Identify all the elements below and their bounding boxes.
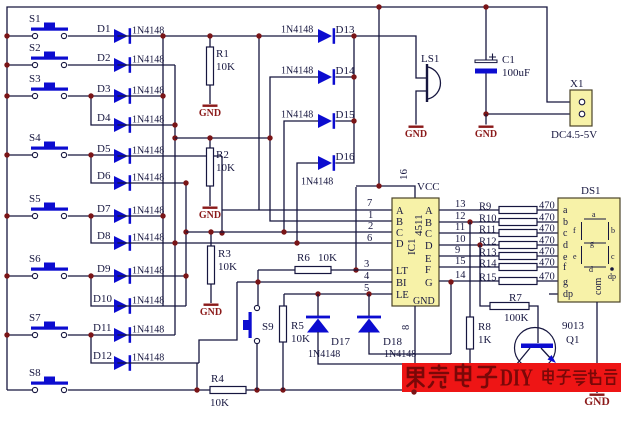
svg-text:10K: 10K <box>318 252 337 264</box>
wire: D3 out <box>117 95 163 97</box>
svg-text:g: g <box>590 239 594 248</box>
node: bus junction S5 <box>4 213 9 218</box>
svg-text:470: 470 <box>539 247 555 258</box>
svg-text:100uF: 100uF <box>502 67 530 79</box>
resistor R15 <box>499 278 537 285</box>
svg-text:12: 12 <box>455 211 466 222</box>
wire: S9 to bus <box>256 344 258 390</box>
diode D16 <box>318 155 335 171</box>
wire: R12 to DS1 <box>537 244 558 246</box>
DS1 segment drawing <box>582 219 614 270</box>
svg-text:GND: GND <box>200 307 222 318</box>
node R3 top <box>208 229 213 234</box>
switch S7 <box>29 312 68 338</box>
display DS1 <box>558 198 620 302</box>
node bus-D12 <box>194 387 199 392</box>
wire: D9 out <box>117 275 186 277</box>
svg-text:e: e <box>573 252 577 261</box>
node S9-pin4 <box>255 279 260 284</box>
svg-text:10K: 10K <box>216 162 235 174</box>
svg-text:D11: D11 <box>93 322 112 334</box>
svg-text:c: c <box>563 228 568 239</box>
resistor R12 <box>499 242 537 249</box>
wire: D16 anode to D net <box>297 163 318 243</box>
wire: D5 vertical <box>221 156 223 233</box>
wire: D18 cathode lead <box>368 294 370 316</box>
wire: D14 anode / B vertical to IC pin1 <box>270 77 392 221</box>
resistor R3 <box>208 246 215 284</box>
svg-text:f: f <box>573 226 576 235</box>
diode D4 <box>114 117 131 133</box>
svg-text:S1: S1 <box>29 13 41 25</box>
watermark text <box>408 365 497 388</box>
wire: R10 to DS1 <box>537 221 558 223</box>
svg-text:1N4148: 1N4148 <box>308 349 340 360</box>
svg-text:DIY: DIY <box>500 366 533 392</box>
svg-text:4: 4 <box>364 271 370 282</box>
wire: G hook vertical <box>450 282 452 354</box>
connector X1 <box>551 78 597 141</box>
svg-text:14: 14 <box>455 270 466 281</box>
wire: R8 down <box>469 349 471 364</box>
svg-text:dp: dp <box>563 289 573 300</box>
node V1-D3 <box>160 93 165 98</box>
svg-text:1N4148: 1N4148 <box>281 110 313 121</box>
svg-text:a: a <box>563 205 568 216</box>
wire: R13 to DS1 <box>537 255 558 257</box>
svg-text:470: 470 <box>539 236 555 247</box>
svg-text:D12: D12 <box>93 350 112 362</box>
svg-text:GND: GND <box>199 210 221 221</box>
svg-text:DC4.5-5V: DC4.5-5V <box>551 129 597 141</box>
wire: D8 row to IC pin6 <box>117 242 392 244</box>
svg-text:D17: D17 <box>331 336 350 348</box>
svg-text:R4: R4 <box>211 373 224 385</box>
svg-text:Q1: Q1 <box>566 334 579 346</box>
node D5-Cwire <box>219 230 224 235</box>
svg-text:GND: GND <box>199 108 221 119</box>
wire: vertical V2 <box>174 65 176 335</box>
wire: IC pin5 LE <box>284 293 392 295</box>
svg-text:B: B <box>425 218 432 229</box>
node V2-Bwire <box>172 135 177 140</box>
wire: C1 GND stub <box>485 114 487 125</box>
wire: bottom bus <box>68 389 416 391</box>
svg-text:VCC: VCC <box>417 181 440 193</box>
node bus-R5 <box>280 387 285 392</box>
wire: R1 to GND <box>209 85 211 104</box>
switch S8 <box>29 367 68 393</box>
svg-text:R8: R8 <box>478 321 491 333</box>
node D15-C <box>281 229 286 234</box>
svg-text:470: 470 <box>539 272 555 283</box>
wire: D17 cathode lead <box>317 294 319 316</box>
svg-text:1N4148: 1N4148 <box>132 296 164 307</box>
wire: bus to S2 <box>7 64 32 66</box>
svg-text:S8: S8 <box>29 367 41 379</box>
node: bus junction below banner <box>411 389 416 394</box>
diode D11 <box>114 327 131 343</box>
svg-text:10: 10 <box>455 234 466 245</box>
svg-text:8: 8 <box>401 325 412 330</box>
wire: S4 to D5 <box>68 154 114 156</box>
svg-text:S5: S5 <box>29 193 41 205</box>
wire: bus to S6 <box>7 275 32 277</box>
wire: VCC to IC pin16 <box>356 186 415 198</box>
svg-text:R6: R6 <box>297 252 310 264</box>
wire: IC pin12 to R10 <box>439 221 499 223</box>
diode D12 <box>114 355 131 371</box>
node pin14 <box>448 279 453 284</box>
node: bus junction S3 <box>4 93 9 98</box>
diode D10 <box>114 298 131 314</box>
node D13 cathode <box>351 33 356 38</box>
svg-text:b: b <box>611 226 615 235</box>
node: S3 branch <box>88 93 93 98</box>
wire: D15 anode to C net <box>284 121 318 232</box>
resistor R4 <box>210 387 246 394</box>
svg-text:C: C <box>396 228 403 239</box>
svg-text:7: 7 <box>367 198 372 209</box>
svg-text:S2: S2 <box>29 42 41 54</box>
svg-text:6: 6 <box>367 233 372 244</box>
diode D17 <box>306 316 330 333</box>
svg-text:D4: D4 <box>97 112 111 124</box>
svg-text:1N4148: 1N4148 <box>132 55 164 66</box>
svg-text:16: 16 <box>398 169 410 181</box>
wire: IC pin14 to R15 <box>439 280 499 282</box>
svg-text:b: b <box>563 217 568 228</box>
svg-text:R13: R13 <box>479 248 497 259</box>
wire: DS1 com to GND <box>596 302 598 393</box>
node: bus junction S6 <box>4 273 9 278</box>
node: S7 branch <box>88 332 93 337</box>
svg-text:R9: R9 <box>479 202 491 213</box>
node D17 top <box>315 291 320 296</box>
diode D5 <box>114 148 131 164</box>
node V1-D1 <box>160 33 165 38</box>
IC U1 4511 <box>392 198 439 306</box>
svg-text:LS1: LS1 <box>421 53 439 65</box>
svg-text:D10: D10 <box>93 293 112 305</box>
svg-text:1N4148: 1N4148 <box>132 233 164 244</box>
wire: R5 to bus <box>282 342 284 390</box>
svg-text:D8: D8 <box>97 230 111 242</box>
wire: VCC drop <box>378 7 380 186</box>
wire: R2 to GND <box>209 186 211 206</box>
wire: R6 left <box>258 269 295 271</box>
wire: D7 out <box>117 215 163 217</box>
wire: IC pin8 GND <box>414 306 416 391</box>
svg-text:15: 15 <box>455 256 466 267</box>
wire: B net horizontal <box>175 137 270 139</box>
node C1 bottom <box>483 111 488 116</box>
svg-text:D: D <box>396 239 404 250</box>
wire: vertical V3 <box>185 183 187 306</box>
wire: IC pin11 to R11 <box>439 232 499 234</box>
svg-text:1N4148: 1N4148 <box>132 206 164 217</box>
node D14 cathode <box>351 74 356 79</box>
svg-text:GND: GND <box>584 396 610 408</box>
resistor R5 <box>280 306 287 342</box>
node bus-S9 <box>254 387 259 392</box>
svg-text:2: 2 <box>368 221 373 232</box>
svg-text:d: d <box>563 240 568 251</box>
wire: vertical V1 <box>162 36 164 306</box>
svg-text:GND: GND <box>413 296 435 307</box>
wire: top bus to C1 <box>485 7 487 60</box>
switch S4 <box>29 132 68 158</box>
svg-text:R11: R11 <box>479 225 496 236</box>
node D15 cathode <box>351 118 356 123</box>
node D16-D <box>294 240 299 245</box>
svg-text:1N4148: 1N4148 <box>132 26 164 37</box>
svg-text:1N4148: 1N4148 <box>281 25 313 36</box>
svg-text:R1: R1 <box>216 48 229 60</box>
resistor R13 <box>499 253 537 260</box>
wire: IC pin13 to R9 <box>439 209 499 211</box>
node C1 top <box>483 4 488 9</box>
speaker LS1 <box>421 53 440 102</box>
diode D14 <box>318 69 335 85</box>
node R1 top <box>207 33 212 38</box>
node: S5 branch <box>88 213 93 218</box>
node A net <box>256 33 261 38</box>
svg-text:470: 470 <box>539 224 555 235</box>
wire: S3 branch to D4 <box>91 96 114 125</box>
diode D9 <box>114 268 131 284</box>
wire: pin10 to R7 <box>480 245 490 306</box>
wire: D13 cathode to LS1 <box>335 36 426 78</box>
resistor R6 <box>295 267 331 274</box>
svg-text:D18: D18 <box>383 336 402 348</box>
wire: IC pin15 to R14 <box>439 266 499 268</box>
node V1-D7 <box>160 213 165 218</box>
svg-text:D3: D3 <box>97 83 111 95</box>
switch S5 <box>29 193 68 219</box>
watermark small text <box>543 369 616 385</box>
svg-text:R3: R3 <box>218 248 231 260</box>
wire: D12 to bottom bus <box>196 363 198 390</box>
node LT <box>353 267 358 272</box>
wire: S3 to D3 <box>68 95 114 97</box>
node: bus junction S7 <box>4 332 9 337</box>
wire: S7 to D11 <box>68 334 114 336</box>
wire: D14-D16 cathode chain <box>335 36 354 163</box>
watermark banner <box>402 363 621 392</box>
wire: D18 anode <box>369 332 451 354</box>
node: bus junction S1 <box>4 33 9 38</box>
svg-text:S6: S6 <box>29 253 41 265</box>
svg-text:D: D <box>425 241 433 252</box>
switch S3 <box>29 73 68 99</box>
diode D6 <box>114 175 131 191</box>
svg-text:100K: 100K <box>504 312 529 324</box>
wire: A net vertical <box>258 36 260 210</box>
svg-text:B: B <box>396 217 403 228</box>
node V3-D6 <box>183 180 188 185</box>
node D18 top <box>366 291 371 296</box>
ground C1 <box>475 126 497 141</box>
diode D8 <box>114 235 131 251</box>
wire: D1 row to D13 anode <box>117 35 318 37</box>
svg-text:a: a <box>592 210 596 219</box>
resistor R8 <box>467 317 474 349</box>
svg-text:DS1: DS1 <box>581 185 601 197</box>
wire: pin12 to R8 <box>469 222 471 317</box>
wire: bus to S8 <box>7 389 32 391</box>
diode D13 <box>318 28 335 44</box>
diode D15 <box>318 113 335 129</box>
diode D7 <box>114 208 131 224</box>
resistor R1 <box>207 47 214 85</box>
wire: C net to IC pin2 <box>186 231 392 233</box>
node VCC junction <box>376 183 381 188</box>
svg-text:D5: D5 <box>97 143 111 155</box>
resistor R7 <box>490 303 529 310</box>
wire: D12 out <box>117 362 199 364</box>
svg-text:g: g <box>563 277 568 288</box>
svg-text:470: 470 <box>539 201 555 212</box>
node: S4 branch <box>88 152 93 157</box>
svg-text:com: com <box>593 278 604 295</box>
wire: R7 to Q1 <box>529 306 538 343</box>
svg-text:S4: S4 <box>29 132 41 144</box>
ground DS1 <box>584 394 610 409</box>
resistor R9 <box>499 207 537 214</box>
ground LS1 <box>405 126 427 141</box>
node V3-D9 <box>183 273 188 278</box>
wire: IC pin9 to R13 <box>439 255 499 257</box>
svg-text:3: 3 <box>364 259 369 270</box>
wire: D15 cathode <box>335 120 354 122</box>
wire: LT vertical <box>355 187 357 270</box>
node R2 top <box>207 135 212 140</box>
node V3-Cwire <box>183 229 188 234</box>
wire: R6 to S9 <box>257 270 259 305</box>
svg-text:R2: R2 <box>216 149 229 161</box>
svg-text:R10: R10 <box>479 214 497 225</box>
wire: IC pin10 to R12 <box>439 244 499 246</box>
wire: R14 to DS1 <box>537 266 558 268</box>
node B vertical <box>267 135 272 140</box>
wire: LS1 to GND <box>416 91 426 125</box>
wire: D6 out <box>117 182 186 184</box>
svg-text:C1: C1 <box>502 54 515 66</box>
svg-text:1N4148: 1N4148 <box>132 86 164 97</box>
ground R3 <box>200 304 222 319</box>
wire: D17 anode <box>318 332 402 364</box>
wire: S6 to D9 <box>68 275 114 277</box>
svg-text:1N4148: 1N4148 <box>301 177 333 188</box>
svg-text:10K: 10K <box>210 397 229 409</box>
node pin10 <box>477 242 482 247</box>
svg-text:D16: D16 <box>336 151 355 163</box>
svg-text:4511: 4511 <box>413 214 425 236</box>
wire: D12 to pin4 staircase <box>199 282 237 363</box>
DS1 segment letters <box>573 210 616 281</box>
svg-text:1N4148: 1N4148 <box>132 266 164 277</box>
wire: S7 branch to D12 <box>91 335 114 363</box>
svg-text:9: 9 <box>455 245 460 256</box>
svg-text:R7: R7 <box>509 292 522 304</box>
transistor Q1 <box>515 328 557 369</box>
svg-text:13: 13 <box>455 199 466 210</box>
svg-text:d: d <box>589 265 593 274</box>
wire: S5 to D7 <box>68 215 114 217</box>
svg-text:9013: 9013 <box>562 320 585 332</box>
svg-text:A: A <box>425 206 433 217</box>
diode D1 <box>114 28 131 44</box>
wire: LE to R5 <box>283 294 285 306</box>
diode D18 <box>357 316 381 333</box>
wire: IC pin7 A <box>222 209 392 211</box>
svg-text:10K: 10K <box>216 61 235 73</box>
wire: D10 out <box>117 305 186 307</box>
wire: D11 out <box>117 334 175 336</box>
node pin12 <box>467 219 472 224</box>
svg-text:R5: R5 <box>291 320 304 332</box>
resistor R2 <box>207 148 214 186</box>
svg-text:S3: S3 <box>29 73 41 85</box>
wire: C to R3 <box>210 232 212 246</box>
wire: C1 to X1 pin2 <box>486 74 578 115</box>
svg-text:c: c <box>611 252 615 261</box>
ground R1 <box>199 105 221 120</box>
svg-text:1: 1 <box>368 210 373 221</box>
wire: S5 branch to D8 <box>91 216 114 243</box>
svg-text:F: F <box>425 265 431 276</box>
svg-text:D9: D9 <box>97 263 111 275</box>
svg-text:dp: dp <box>608 272 616 281</box>
wire: D5 out <box>117 155 222 157</box>
wire: S2 to D2 <box>68 64 114 66</box>
diode D3 <box>114 88 131 104</box>
svg-text:IC1: IC1 <box>406 239 418 256</box>
wire: IC pin4 BI <box>237 281 392 283</box>
svg-text:GND: GND <box>405 129 427 140</box>
svg-text:1N4148: 1N4148 <box>132 146 164 157</box>
wire: S6 branch to D10 <box>91 276 114 306</box>
svg-text:R15: R15 <box>479 273 497 284</box>
svg-text:A: A <box>396 206 404 217</box>
svg-text:E: E <box>425 254 431 265</box>
svg-text:470: 470 <box>539 258 555 269</box>
wire: R11 to DS1 <box>537 232 558 234</box>
svg-text:S7: S7 <box>29 312 41 324</box>
wire: bus to S3 <box>7 95 32 97</box>
svg-text:G: G <box>425 278 433 289</box>
svg-text:10K: 10K <box>291 333 310 345</box>
svg-text:1N4148: 1N4148 <box>132 325 164 336</box>
wire: D14 cathode <box>335 76 354 78</box>
resistor R10 <box>499 219 537 226</box>
svg-text:D1: D1 <box>97 23 110 35</box>
wire: R9 to DS1 <box>537 209 558 211</box>
svg-text:LE: LE <box>396 290 409 301</box>
wire: B to R2 <box>209 138 211 148</box>
svg-text:GND: GND <box>475 129 497 140</box>
svg-text:C: C <box>425 229 432 240</box>
wire: R6 to IC pin3 <box>331 269 392 271</box>
svg-text:1N4148: 1N4148 <box>281 66 313 77</box>
svg-text:R14: R14 <box>479 259 497 270</box>
svg-text:10K: 10K <box>218 261 237 273</box>
node: bus junction S2 <box>4 62 9 67</box>
wire: S1 to D1 <box>68 35 114 37</box>
wire: D4 out <box>117 124 175 126</box>
diode D2 <box>114 57 131 73</box>
